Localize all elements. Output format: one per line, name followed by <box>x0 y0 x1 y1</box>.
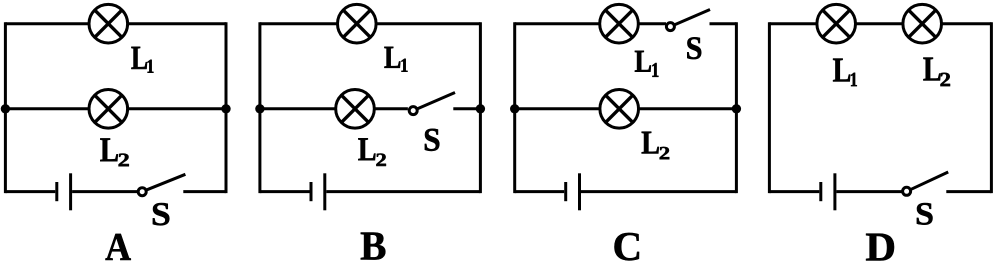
wire B right vertical <box>479 22 482 193</box>
battery (B) <box>311 173 325 210</box>
wire C bottom-left segment <box>515 190 565 193</box>
wire A top-right segment <box>128 22 226 25</box>
lamp L2 (A) <box>89 90 128 129</box>
label L2 (D) <box>923 58 950 87</box>
node dot A right <box>221 104 230 113</box>
label L1 (D) <box>833 59 857 87</box>
wire C middle-right segment <box>639 107 737 110</box>
lamp L2 (C) <box>600 90 639 129</box>
wire D switch-to-corner segment <box>946 190 991 193</box>
label L2 (C) <box>642 132 670 160</box>
node dot A left <box>1 104 10 113</box>
wire A battery-to-switch segment <box>72 190 138 193</box>
wire B bottom-right segment <box>326 190 480 193</box>
node dot C right <box>732 104 741 113</box>
label C <box>615 233 640 261</box>
wire C right vertical <box>735 22 738 193</box>
switch S (C) <box>666 10 710 31</box>
label L2 (B) <box>358 138 386 166</box>
battery (C) <box>566 173 580 210</box>
wire B top-right segment <box>376 22 480 25</box>
label S (D) <box>917 203 933 225</box>
node dot B left <box>255 104 264 113</box>
label A <box>106 234 131 260</box>
wire D right vertical <box>990 22 993 193</box>
label S (A) <box>153 203 169 225</box>
node dot B right <box>476 104 485 113</box>
wire B bottom-left segment <box>260 190 310 193</box>
lamp L2 (D) <box>903 4 942 43</box>
label D <box>866 234 894 261</box>
lamp L1 (A) <box>89 4 128 43</box>
lamp L1 (D) <box>817 4 856 43</box>
label S (B) <box>425 129 439 151</box>
label B <box>361 233 386 260</box>
wire A bottom-left segment <box>5 190 55 193</box>
wire B lamp-to-switch segment <box>374 107 408 110</box>
switch S (A) <box>138 174 185 195</box>
wire D top-left segment <box>769 22 817 25</box>
lamp L1 (B) <box>338 4 377 43</box>
wire D left vertical <box>768 22 771 193</box>
wire C left vertical <box>513 22 516 193</box>
lamp L2 (B) <box>336 90 375 129</box>
wire D battery-to-switch segment <box>836 190 902 193</box>
wire C bottom-right segment <box>581 190 736 193</box>
wire A switch-to-corner segment <box>183 190 226 193</box>
lamp L1 (C) <box>600 4 639 43</box>
node dot C left <box>510 104 519 113</box>
wire B switch-to-node segment <box>453 107 480 110</box>
label L1 (A) <box>131 47 153 73</box>
wire A left vertical <box>4 22 7 193</box>
wire B top-left segment <box>260 22 338 25</box>
wire C middle-left segment <box>515 107 600 110</box>
label L1 (C) <box>635 51 659 77</box>
wire C top-left segment <box>515 22 600 25</box>
wire A top-left segment <box>5 22 89 25</box>
wire C switch-to-corner segment <box>710 22 737 25</box>
battery (A) <box>57 173 71 210</box>
switch S (B) <box>409 93 455 115</box>
wire A right vertical <box>225 22 228 193</box>
wire C lamp-to-switch segment <box>638 22 666 25</box>
label L2 (A) <box>100 138 129 166</box>
wire D bottom-left segment <box>769 190 819 193</box>
switch S (D) <box>903 172 949 195</box>
wire D between-lamps segment <box>856 22 903 25</box>
label L1 (B) <box>384 47 407 72</box>
wire D top-right segment <box>942 22 992 25</box>
wire B left vertical <box>258 22 261 193</box>
wire A middle-left segment <box>5 107 89 110</box>
battery (D) <box>821 173 835 210</box>
wire B middle-left segment <box>260 107 336 110</box>
wire A middle-right segment <box>128 107 226 110</box>
label S (C) <box>687 37 701 59</box>
